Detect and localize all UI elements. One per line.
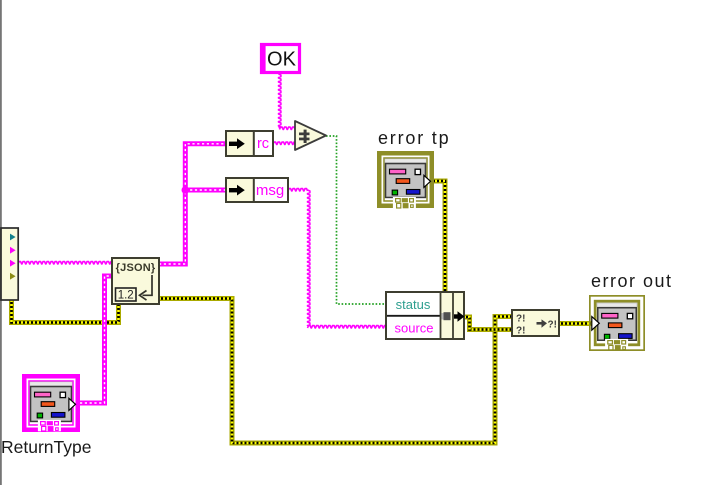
wire: cluster trunk from Unflatten JSON output up to rc unbundle [159,144,226,264]
svg-text:1.2: 1.2 [118,290,134,302]
svg-text:{JSON}: {JSON} [116,262,156,274]
indicator: error out cluster [590,296,644,350]
wire: error cluster from Unflatten JSON to Merge Errors input 1 (bottom route) [159,299,511,444]
svg-text:source: source [394,321,433,336]
svg-text:ReturnType: ReturnType [1,437,91,457]
wire: string from OK constant down to Not Equal input [279,74,281,128]
node: Unflatten From JSON {JSON} [112,258,159,304]
svg-text:?!: ?! [516,314,525,325]
node: Not Equal? comparison [295,121,326,150]
tunnel: cluster input terminal on structure edge [1,228,18,300]
node: Unbundle By Name rc [226,131,273,156]
svg-text:rc: rc [257,136,269,152]
svg-text:?!: ?! [516,326,525,337]
wire: boolean from Not Equal output to Bundle By Name status input [326,136,386,304]
wire: cluster from ReturnType constant to Unflatten JSON type input [80,276,112,403]
wire: error cluster from error tp constant down to Bundle By Name input [431,181,445,293]
wire: error cluster from Bundle By Name output to Merge Errors input 2 [464,317,511,330]
svg-text:error tp: error tp [378,128,450,148]
svg-text:error out: error out [591,271,673,291]
constant: error tp typedef cluster [379,153,432,208]
junction: solder dot on cluster trunk [182,186,190,194]
wire: error cluster from Merge Errors output to error out indicator [559,321,592,326]
constant: OK string [260,43,301,74]
node: Unbundle By Name msg [226,178,288,202]
constant: ReturnType typedef cluster [24,376,78,431]
wire: string from msg unbundle to Bundle By Name source input [288,189,308,191]
wire: string from rc unbundle to Not Equal input [273,142,295,144]
wire: error cluster from left tunnel to Unflatten JSON error in [12,300,119,323]
case structure left border [0,0,2,485]
node: Bundle By Name (status, source) [386,292,465,339]
svg-text:msg: msg [256,182,284,199]
svg-text:status: status [396,297,431,312]
svg-text:?!: ?! [548,320,557,331]
wire: cluster branch to msg unbundle [185,188,226,193]
wire: string from tunnel to Unflatten JSON string input [18,262,112,264]
node: Merge Errors [512,310,559,337]
svg-text:OK: OK [267,49,297,71]
